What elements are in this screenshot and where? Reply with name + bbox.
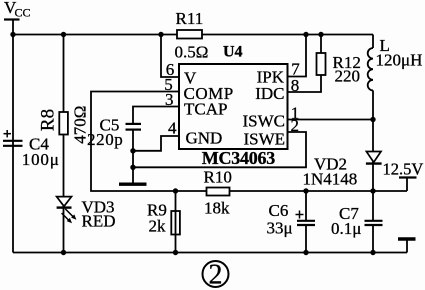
node output rail / C6 (303, 188, 308, 193)
svg-text:12.5V: 12.5V (383, 160, 424, 179)
capacitor C4 (3, 130, 60, 169)
svg-text:120μH: 120μH (376, 51, 423, 70)
wire pin 6 connection (161, 35, 179, 78)
svg-text:2k: 2k (149, 217, 167, 236)
figure number 2 (203, 259, 229, 290)
wire top rail (13, 34, 373, 36)
resistor R9 (147, 201, 180, 236)
wire pin 4 GND connection (133, 136, 180, 151)
svg-text:MC34063: MC34063 (202, 148, 276, 168)
svg-text:2: 2 (290, 116, 299, 135)
svg-text:18k: 18k (204, 199, 230, 218)
svg-text:100μ: 100μ (22, 150, 60, 169)
node output rail / C7 (370, 188, 375, 193)
wire R9 branch (175, 191, 177, 253)
svg-text:220: 220 (335, 67, 361, 86)
wire R8/VD3 branch (63, 35, 65, 253)
diode VD2 (303, 152, 382, 189)
capacitor C6 (267, 191, 316, 253)
ground (119, 182, 147, 185)
resistor R10 (204, 168, 232, 218)
svg-text:ISWE: ISWE (243, 129, 285, 148)
capacitor C7 (331, 191, 383, 253)
svg-text:2: 2 (209, 259, 223, 290)
inductor L (368, 36, 423, 90)
svg-text:4: 4 (168, 119, 177, 138)
node bottom rail / VD3 (61, 250, 66, 255)
svg-text:IDC: IDC (255, 84, 284, 103)
IC U4 MC34063 (179, 44, 288, 169)
svg-text:C6: C6 (269, 201, 289, 220)
svg-text:470Ω: 470Ω (71, 106, 90, 144)
resistor R11 (175, 9, 209, 61)
node L / pin1 / VD2 (370, 117, 375, 122)
output terminal +12.5V (383, 160, 424, 179)
svg-text:3: 3 (165, 90, 174, 109)
svg-text:TCAP: TCAP (184, 100, 227, 119)
node pin4 / C5 (130, 148, 135, 153)
wire pin 1 connection (288, 119, 373, 121)
resistor R12 (317, 53, 361, 86)
svg-text:RED: RED (82, 212, 116, 231)
wire inductor to node (372, 90, 374, 119)
wire pin 5 COMP feedback (91, 92, 407, 192)
LED VD3 (57, 197, 116, 231)
svg-text:R11: R11 (176, 9, 204, 28)
node pin2 / ground line (130, 165, 135, 170)
node top rail / C4 (10, 32, 15, 37)
wire pin 7 connection (288, 35, 306, 77)
svg-text:R8: R8 (38, 109, 59, 131)
node bottom rail / C7 (370, 250, 375, 255)
svg-text:CC: CC (15, 6, 31, 20)
wire inductor branch (372, 35, 374, 49)
node top rail / R12 (318, 32, 323, 37)
wire C4 branch (12, 35, 14, 253)
wire bottom rail (13, 252, 407, 254)
svg-text:0.5Ω: 0.5Ω (175, 42, 209, 61)
wire output stem (406, 179, 408, 192)
svg-text:GND: GND (186, 129, 223, 148)
wire R12 / pin 8 connection (288, 35, 321, 93)
wire pin 3 to C5 (133, 107, 179, 124)
wire pin 2 to ground net (133, 132, 306, 167)
node bottom rail / C6 (303, 250, 308, 255)
node output rail / R9 (173, 188, 178, 193)
ground terminal (398, 239, 416, 253)
svg-text:0.1μ: 0.1μ (331, 219, 361, 238)
capacitor C5 (87, 116, 141, 150)
wire C5 to ground symbol (132, 131, 134, 184)
node top rail / pin7 (303, 32, 308, 37)
svg-text:U4: U4 (223, 44, 243, 61)
svg-text:220p: 220p (87, 130, 123, 149)
resistor R8 (38, 106, 90, 144)
power terminal VCC (4, 0, 31, 35)
wire VD2 branch (372, 120, 374, 192)
svg-text:33μ: 33μ (267, 218, 293, 237)
svg-text:8: 8 (291, 76, 300, 95)
svg-text:ISWC: ISWC (243, 112, 286, 131)
node bottom rail / R9 (173, 250, 178, 255)
svg-text:R10: R10 (204, 168, 232, 187)
node top rail / pin6 (158, 32, 163, 37)
node top rail / R8 (61, 32, 66, 37)
svg-text:1N4148: 1N4148 (303, 170, 358, 189)
